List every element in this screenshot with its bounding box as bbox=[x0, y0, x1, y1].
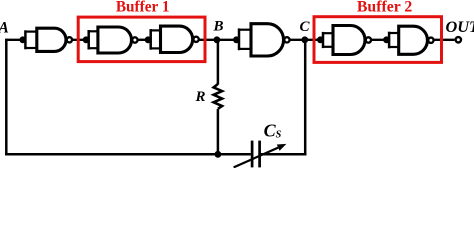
wire: U1 output to U2 input bbox=[73, 39, 89, 41]
gate U5 body bbox=[333, 26, 365, 55]
gate U6 body bbox=[399, 26, 428, 54]
gate U3 input stub (pin 2) bbox=[151, 47, 162, 49]
svg-text:A: A bbox=[0, 20, 9, 37]
gate U5 input stub (pin 2) bbox=[323, 46, 335, 48]
svg-text:B: B bbox=[213, 19, 224, 35]
resistor R zigzag bbox=[214, 84, 223, 109]
gate U3 output bubble bbox=[193, 37, 198, 42]
NAND-inverter gate U3: input tie bar bbox=[149, 29, 152, 50]
gate U1 body bbox=[37, 28, 66, 51]
svg-text:Buffer 1: Buffer 1 bbox=[116, 0, 170, 15]
gate U1 input junction dot bbox=[19, 36, 26, 43]
gate U4 input junction dot bbox=[233, 36, 240, 43]
gate U1 output bubble bbox=[67, 37, 72, 42]
gate U4 input stub (pin 1) bbox=[239, 29, 253, 31]
gate U2 input stub (pin 2) bbox=[89, 47, 100, 49]
wire: bottom rail left segment (to capacitor left plate) bbox=[5, 153, 251, 156]
gate U6 input junction dot bbox=[383, 36, 390, 43]
node C junction dot bbox=[301, 36, 308, 43]
NAND-inverter gate U1: input tie bar bbox=[24, 30, 27, 49]
capacitor CS variable-adjust arrowhead bbox=[277, 144, 287, 151]
svg-text:Buffer 2: Buffer 2 bbox=[357, 0, 413, 15]
gate U2 input stub (pin 1) bbox=[89, 30, 100, 32]
node B junction dot bbox=[214, 36, 221, 43]
svg-text:R: R bbox=[195, 89, 206, 105]
gate U5 input junction dot bbox=[317, 36, 324, 43]
wire: U5 output to U6 input bbox=[372, 39, 389, 41]
capacitor CS variable-adjust arrow shaft bbox=[234, 148, 279, 168]
wire: node A horizontal segment into U1 bbox=[5, 39, 25, 41]
wire: U2 output to U3 input bbox=[138, 39, 151, 41]
gate U1 input stub (pin 1) bbox=[25, 31, 38, 33]
svg-text:OUT: OUT bbox=[446, 17, 474, 36]
gate U6 input stub (pin 1) bbox=[389, 32, 400, 34]
gate U4 body bbox=[251, 24, 284, 56]
NAND-inverter gate U5: input tie bar bbox=[322, 32, 325, 48]
gate U4 input stub (pin 2) bbox=[239, 48, 253, 50]
gate U3 input junction dot bbox=[145, 36, 152, 43]
gate U1 input stub (pin 2) bbox=[25, 47, 38, 49]
gate U6 output bubble bbox=[428, 38, 433, 43]
wire: U4 output through node C to U5 input bbox=[290, 39, 323, 41]
wire: resistor R bottom to bottom rail bbox=[217, 109, 220, 154]
wire: node B down to resistor R top bbox=[217, 40, 220, 85]
gate U3 body bbox=[161, 26, 193, 52]
output terminal circle bbox=[456, 37, 461, 42]
gate U4 output bubble bbox=[284, 37, 289, 42]
gate U6 input stub (pin 2) bbox=[389, 46, 400, 48]
capacitor CS right plate bbox=[258, 141, 261, 168]
Buffer 2 red box bbox=[314, 17, 442, 63]
gate U5 input stub (pin 1) bbox=[323, 32, 335, 34]
gate U3 input stub (pin 1) bbox=[151, 29, 162, 31]
wire: bottom rail right segment (capacitor right plate to node C riser) bbox=[259, 153, 306, 156]
junction dot: resistor bottom on rail bbox=[215, 151, 222, 158]
NAND-inverter gate U2: input tie bar bbox=[87, 30, 90, 50]
capacitor CS left plate bbox=[251, 141, 254, 168]
wire: node C vertical riser bbox=[304, 40, 307, 156]
svg-text:C: C bbox=[300, 19, 311, 35]
NAND-inverter gate U4: input tie bar bbox=[238, 28, 241, 50]
wire: U3 output through node B to U4 input bbox=[199, 39, 239, 41]
gate U5 output bubble bbox=[366, 37, 371, 42]
Buffer 1 red box bbox=[78, 17, 205, 62]
gate U2 body bbox=[98, 27, 132, 53]
gate U2 output bubble bbox=[132, 37, 137, 42]
NAND-inverter gate U6: input tie bar bbox=[388, 32, 391, 49]
gate U2 input junction dot bbox=[83, 36, 90, 43]
wire: left feedback vertical (node A down to bottom rail) bbox=[5, 39, 8, 156]
wire: U6 output to OUT terminal bbox=[434, 39, 454, 41]
